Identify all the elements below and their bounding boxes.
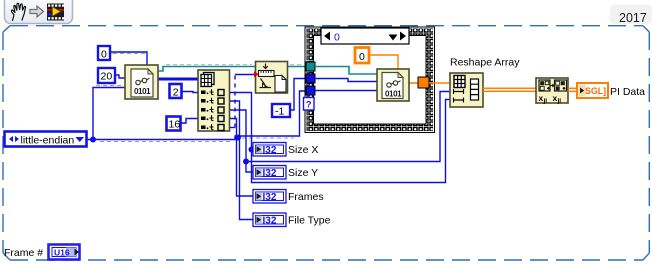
wire: constant 2 to index row1 (182, 92, 198, 93)
svg-text:I32: I32 (263, 216, 277, 227)
wire: enum main run to inner tunnel (87, 91, 306, 142)
svg-text:?: ? (306, 100, 312, 111)
constant -1 (272, 104, 290, 118)
wire: inner byte order (315, 90, 377, 92)
svg-text:PI Data: PI Data (610, 86, 645, 98)
constant 2 (170, 84, 182, 99)
enum constant little-endian (5, 132, 87, 147)
tunnel unwired ? (304, 98, 315, 111)
svg-text:0101: 0101 (385, 90, 402, 99)
version label 2017 (610, 5, 652, 25)
svg-text:Size Y: Size Y (288, 167, 318, 179)
wire: index row1 to Size X and reshape dim2 (229, 93, 450, 183)
wire: index row5 to file-size node (dashed crossing) (229, 75, 255, 128)
svg-text:2017: 2017 (619, 11, 647, 25)
hand tool icon (11, 3, 25, 20)
svg-text:Size X: Size X (288, 144, 318, 156)
svg-text:U16: U16 (54, 248, 70, 258)
wire: index row3 to Size Y and reshape dim1 (229, 110, 253, 172)
wire: -1 to structure tunnel (290, 79, 306, 111)
wire: inner constant 0 orange (370, 55, 398, 69)
toolbar panel (5, 0, 73, 24)
svg-text:Frame #: Frame # (4, 247, 43, 259)
tunnel output orange (418, 77, 429, 88)
sequence selector label (321, 28, 409, 44)
svg-text:0: 0 (334, 32, 340, 44)
svg-text:-1: -1 (275, 106, 284, 118)
svg-text:Frames: Frames (288, 191, 324, 203)
node Get File Size U2 (256, 62, 288, 94)
control terminal Frame # U16 (49, 245, 80, 260)
wire: constant 0 to read-file node (110, 52, 147, 65)
node Index Array U3 (198, 70, 230, 131)
svg-text:0: 0 (101, 49, 107, 61)
constant 0 (98, 46, 110, 61)
tunnel refnum teal (306, 62, 315, 71)
node Transpose 2D Array U6 (536, 78, 568, 105)
svg-text:little-endian: little-endian (21, 135, 75, 147)
junction dot Size Y (243, 159, 249, 165)
wire: index row4 to Frames (229, 119, 253, 197)
svg-text:0101: 0101 (134, 87, 151, 96)
wire: inner teal refnum (315, 67, 377, 75)
svg-text:I32: I32 (263, 192, 277, 203)
node Read Binary File U1 (125, 65, 158, 99)
run arrow icon (30, 6, 44, 17)
indicator PI Data SGL array (577, 83, 608, 98)
svg-text:0: 0 (359, 51, 365, 63)
tunnel offset blue (306, 74, 315, 83)
indicator terminal Size Y (253, 166, 286, 180)
svg-text:Reshape Array: Reshape Array (450, 57, 520, 69)
wire: inner node output orange (409, 82, 418, 84)
wire: file refnum teal (158, 65, 306, 71)
coercion dot red (254, 71, 259, 77)
constant inner 0 orange (355, 48, 369, 64)
junction dot Size X (249, 147, 255, 153)
constant 16 (167, 117, 181, 131)
wire: data array thick (158, 78, 198, 81)
svg-text:20: 20 (101, 71, 113, 83)
junction dot enum at little-endian (90, 137, 96, 143)
tunnel byteorder blue (306, 86, 315, 95)
svg-text:I32: I32 (263, 168, 277, 179)
structure stacked sequence (305, 27, 435, 133)
wire: index row2 to File Type (229, 101, 253, 220)
wire: enum to byte-order of read-file node (branch up) (93, 86, 125, 140)
node Reshape Array U5 (450, 73, 483, 107)
indicator terminal File Type (253, 213, 286, 227)
svg-text:SGL]: SGL] (585, 86, 606, 96)
svg-text:2: 2 (173, 87, 179, 99)
svg-text:16: 16 (169, 119, 181, 131)
svg-text:I32: I32 (263, 145, 277, 156)
svg-text:ji: ji (543, 98, 548, 105)
indicator terminal Size X (253, 143, 286, 157)
constant 20 (98, 68, 115, 83)
wire: 2D data double orange reshape to transpose (483, 88, 536, 91)
wire: inner offset (315, 79, 377, 82)
VI film icon (47, 4, 64, 21)
wire: constant 16 to index row4 (181, 119, 199, 124)
wire: double orange transpose to indicator (568, 88, 577, 91)
svg-text:File Type: File Type (288, 215, 331, 227)
wire: tunnel to reshape orange (429, 82, 450, 84)
indicator terminal Frames (253, 190, 286, 204)
node Read Binary File U4 inner (377, 69, 409, 101)
wire: constant 20 to read-file node (115, 75, 125, 78)
svg-text:ji: ji (557, 98, 562, 105)
junction dot enum jog (235, 135, 241, 141)
